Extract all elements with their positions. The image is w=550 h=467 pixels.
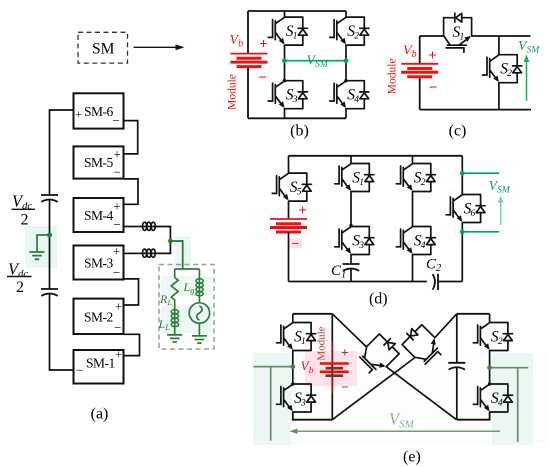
ground wire xyxy=(37,235,50,252)
svg-text:SM-1: SM-1 xyxy=(86,356,115,371)
battery leg (e) xyxy=(331,314,333,420)
wire collector S2 xyxy=(345,11,347,17)
green line lower (d) xyxy=(462,231,499,233)
svg-text:+: + xyxy=(75,108,82,122)
top rail (d) xyxy=(289,155,463,157)
wire source to ground xyxy=(198,323,200,336)
svg-text:SM: SM xyxy=(92,41,115,58)
IGBT S5 xyxy=(272,173,311,201)
svg-text:−: − xyxy=(113,265,120,280)
svg-text:2: 2 xyxy=(16,279,24,296)
wire S2 branch (c) xyxy=(498,36,500,55)
wire S3 emitter to bottom rail xyxy=(284,109,286,119)
wire battery to bottom rail (d) xyxy=(288,232,290,282)
svg-text:S4: S4 xyxy=(414,232,426,251)
wire upper arm with inductor xyxy=(124,226,139,228)
green line right (e) xyxy=(490,367,529,369)
green terminal left (e) xyxy=(270,367,272,441)
wire SM-6 minus to SM-5 plus xyxy=(124,121,138,154)
ground node dot xyxy=(47,232,52,237)
IGBT S4 (e) xyxy=(473,384,512,412)
wire S4 emitter to bottom rail xyxy=(345,109,347,119)
SM-3 box xyxy=(74,245,124,281)
arm inductor upper xyxy=(138,222,157,230)
IGBT S3 (d) xyxy=(335,227,374,255)
svg-text:+: + xyxy=(113,245,120,259)
battery leg dark red overlay (e) xyxy=(331,341,333,393)
highlight wash behind green drop wire xyxy=(175,236,191,266)
svg-text:−: − xyxy=(114,165,121,180)
svg-text:S4: S4 xyxy=(347,87,359,106)
SM-2 box xyxy=(74,299,124,335)
junction dot S3 top (e) xyxy=(291,382,294,385)
capacitor C1 xyxy=(343,264,360,271)
svg-text:Module: Module xyxy=(315,326,327,360)
wire SM-5 minus to SM-4 plus xyxy=(124,179,139,204)
wire S2 emitter to bottom (c) xyxy=(498,83,500,110)
svg-text:−: − xyxy=(76,363,83,378)
diagonal 1 lower segment (e) xyxy=(386,367,456,420)
submodule legend dashed box SM xyxy=(78,32,128,63)
svg-text:SM-5: SM-5 xyxy=(84,155,114,170)
green wire to load xyxy=(170,241,182,269)
IGBT S1 (e) xyxy=(277,323,316,351)
inductor Lg xyxy=(196,276,203,303)
capacitor leg (e) xyxy=(456,314,458,420)
svg-text:S2: S2 xyxy=(414,169,426,188)
svg-text:+: + xyxy=(428,48,437,64)
wire S2 emitter to S4 collector xyxy=(345,45,347,81)
IGBT S2 (d) xyxy=(396,164,435,192)
IGBT S1 (d) xyxy=(335,164,374,192)
highlight wash behind ground xyxy=(25,226,57,268)
IGBT S6 xyxy=(446,195,485,223)
battery Vb (e) xyxy=(320,364,349,376)
bottom wire (c) xyxy=(420,109,531,111)
cyan wash right (e) xyxy=(492,353,533,445)
svg-text:+: + xyxy=(115,300,122,314)
svg-text:−: − xyxy=(114,217,121,232)
wire C1 to bottom rail xyxy=(350,269,352,282)
capacitor (e) xyxy=(448,363,465,370)
junction dot S4 top (e) xyxy=(488,382,491,385)
bottom rail (d) xyxy=(289,281,463,283)
svg-text:SM-3: SM-3 xyxy=(84,256,114,271)
wire collector S1 xyxy=(284,11,286,17)
outer rails (b) xyxy=(248,11,346,118)
svg-text:S1: S1 xyxy=(294,328,306,347)
wire S2 collector (e) xyxy=(489,314,491,323)
svg-text:C1: C1 xyxy=(331,263,346,281)
wire S5 collector xyxy=(288,156,290,173)
svg-text:(c): (c) xyxy=(449,123,467,140)
IGBT S4 xyxy=(330,81,369,109)
ground symbol xyxy=(30,252,45,259)
svg-text:S5: S5 xyxy=(290,179,302,198)
legend arrow xyxy=(134,44,185,50)
top wire right (e) xyxy=(457,313,490,315)
wire S1 collector (e) xyxy=(292,314,294,323)
IGBT S3 (e) xyxy=(277,384,316,412)
svg-text:S3: S3 xyxy=(352,232,364,251)
IGBT cross right (e) xyxy=(399,322,447,370)
pale wash (e) xyxy=(253,352,549,445)
wire SM-3 minus to SM-2 plus xyxy=(124,279,139,305)
green node left (b) xyxy=(282,58,287,63)
svg-text:Module: Module xyxy=(387,58,399,94)
load dashed green box xyxy=(159,265,214,350)
battery Vb (b) xyxy=(231,54,268,67)
IGBT S1 xyxy=(268,17,307,45)
node A green junction dot xyxy=(168,239,173,244)
top wire (c) xyxy=(420,35,531,37)
svg-text:SM-2: SM-2 xyxy=(84,310,113,325)
load top wire xyxy=(175,269,200,278)
battery (d) xyxy=(270,219,307,232)
IGBT S1 (c) horizontal xyxy=(444,13,472,52)
SM-6 box xyxy=(74,93,124,128)
green line left (e) xyxy=(254,366,293,368)
arm inductor lower xyxy=(138,249,157,257)
svg-text:Vb: Vb xyxy=(230,33,244,50)
svg-text:+: + xyxy=(115,348,122,362)
svg-text:Module: Module xyxy=(227,74,239,110)
left dc-link wire xyxy=(50,110,74,370)
IGBT S2 (e) xyxy=(473,323,512,351)
green node upper (d) xyxy=(460,171,465,176)
svg-text:S2: S2 xyxy=(347,23,359,42)
pink highlight minus (d) xyxy=(289,239,302,248)
label Vdc/2 upper xyxy=(12,192,36,229)
wire S1 collector (d) xyxy=(350,156,352,164)
arrow VSM (c) xyxy=(524,55,530,101)
svg-text:+: + xyxy=(298,203,307,219)
wire S1 to S3 (e) xyxy=(292,351,294,385)
SM-1 box xyxy=(74,348,124,384)
green VSM line (b) xyxy=(285,60,347,62)
inductor LL xyxy=(171,307,178,335)
svg-text:−: − xyxy=(114,320,121,335)
svg-text:S1: S1 xyxy=(352,169,364,188)
svg-text:(e): (e) xyxy=(403,449,421,466)
wire S2 to S4 (d) xyxy=(412,192,414,227)
svg-text:−: − xyxy=(341,380,349,395)
wire S4 emitter to bottom (e) xyxy=(457,412,490,420)
wire inductor to SM-3 plus xyxy=(124,252,139,254)
green node right (b) xyxy=(344,58,349,63)
svg-text:−: − xyxy=(113,113,120,128)
label Vdc/2 lower xyxy=(7,260,32,297)
pink wash battery (e) xyxy=(305,351,357,386)
wash inside load box xyxy=(161,276,212,296)
wire SM-2 minus to SM-1 plus xyxy=(124,334,140,355)
svg-text:VSM: VSM xyxy=(307,54,329,71)
svg-text:+: + xyxy=(114,148,121,162)
junction dot S4 top xyxy=(344,79,347,82)
svg-text:SM-6: SM-6 xyxy=(84,104,114,119)
svg-text:−: − xyxy=(258,70,267,86)
green node lower (d) xyxy=(460,229,465,234)
green node right (e) xyxy=(487,365,492,370)
svg-text:C2: C2 xyxy=(426,257,442,275)
svg-text:S2: S2 xyxy=(491,328,503,347)
svg-text:SM-4: SM-4 xyxy=(84,208,114,223)
IGBT S2 (c) xyxy=(483,55,522,83)
capacitor Vdc/2 upper xyxy=(41,195,58,202)
arrow VSM (d) xyxy=(498,196,504,226)
wire S3 to C1 xyxy=(350,255,352,265)
diagonal 1 upper segment (e) xyxy=(332,314,366,347)
diagonal 2 lower segment (e) xyxy=(332,358,415,420)
battery leg (c) xyxy=(419,36,421,110)
svg-text:VSM: VSM xyxy=(518,39,540,56)
svg-text:+: + xyxy=(114,200,121,214)
svg-text:+: + xyxy=(259,37,268,53)
svg-text:S1: S1 xyxy=(453,24,465,43)
wire S6 branch (d) xyxy=(461,156,463,282)
ground load left xyxy=(167,335,182,342)
wire S1 emitter to S3 collector xyxy=(284,45,286,81)
svg-text:(b): (b) xyxy=(290,123,309,140)
ground load right xyxy=(192,336,207,343)
capacitor Vdc/2 lower xyxy=(41,289,58,296)
green line upper (d) xyxy=(462,172,499,174)
wire S2 to S4 (e) xyxy=(489,351,491,385)
svg-text:S1: S1 xyxy=(286,23,298,42)
resistor RL xyxy=(171,278,178,307)
svg-text:S3: S3 xyxy=(286,87,298,106)
svg-text:(a): (a) xyxy=(91,406,109,423)
svg-text:S6: S6 xyxy=(464,200,476,219)
svg-text:S2: S2 xyxy=(500,61,512,80)
IGBT S3 xyxy=(268,81,307,109)
cyan wash left (e) xyxy=(253,353,291,445)
green node left (e) xyxy=(290,364,295,369)
svg-text:−: − xyxy=(429,80,438,96)
IGBT S4 (d) xyxy=(396,227,435,255)
IGBT cross left (e) xyxy=(355,331,403,379)
wire S3 emitter to bottom (e) xyxy=(293,412,333,420)
junction dot S3 top xyxy=(283,79,286,82)
green terminal right (e) xyxy=(517,368,519,442)
SM-5 box xyxy=(74,146,124,179)
diagonal 2 upper segment (e) xyxy=(435,314,457,338)
svg-text:+: + xyxy=(341,345,349,360)
wire S1 to S3 (d) xyxy=(350,192,352,227)
arrow VSM (e) xyxy=(290,429,501,434)
wire S4 emitter to bottom rail (d) xyxy=(412,255,414,282)
svg-text:Vb: Vb xyxy=(403,44,417,61)
wire S2 collector (d) xyxy=(412,156,414,164)
svg-text:−: − xyxy=(292,237,300,252)
wire arm junction vertical xyxy=(157,227,171,254)
capacitor C2 in bottom rail xyxy=(433,274,438,290)
top wire left (e) xyxy=(293,313,333,315)
junction dot S3 (d) xyxy=(349,224,352,227)
svg-text:VSM: VSM xyxy=(489,179,511,196)
AC grid source xyxy=(189,303,209,323)
svg-text:(d): (d) xyxy=(369,291,388,308)
wire S5 emitter to battery xyxy=(288,201,290,219)
IGBT S2 xyxy=(330,17,369,45)
battery Vb (c) xyxy=(401,64,438,77)
SM-4 box xyxy=(74,198,124,232)
svg-text:2: 2 xyxy=(21,212,29,229)
